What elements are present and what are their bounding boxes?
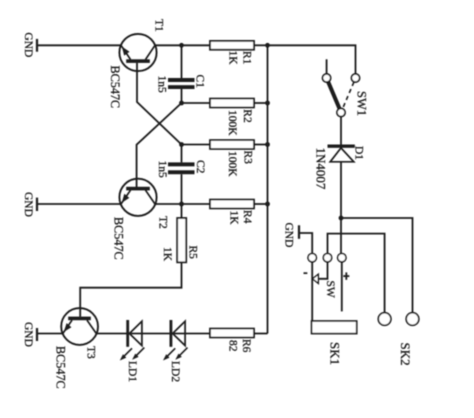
svg-text:T2: T2: [157, 216, 169, 229]
svg-text:SW: SW: [324, 281, 336, 298]
svg-text:1N4007: 1N4007: [314, 148, 329, 190]
svg-text:GND: GND: [22, 32, 34, 57]
svg-text:SK1: SK1: [328, 342, 343, 365]
svg-text:1n5: 1n5: [156, 161, 168, 179]
svg-text:SK2: SK2: [398, 343, 413, 366]
svg-text:R6: R6: [240, 339, 252, 353]
svg-text:R1: R1: [241, 51, 253, 65]
svg-text:82: 82: [227, 340, 239, 352]
svg-text:GND: GND: [22, 322, 34, 347]
svg-text:100K: 100K: [226, 151, 238, 177]
svg-text:T1: T1: [153, 19, 165, 32]
svg-text:LD1: LD1: [126, 361, 138, 382]
svg-text:1K: 1K: [228, 211, 240, 226]
svg-text:D1: D1: [353, 146, 365, 160]
svg-text:GND: GND: [22, 192, 34, 217]
svg-text:LD2: LD2: [169, 361, 181, 382]
svg-text:R2: R2: [241, 109, 253, 123]
svg-text:BC547C: BC547C: [54, 346, 68, 389]
svg-text:R5: R5: [186, 246, 198, 260]
svg-text:T3: T3: [84, 346, 96, 359]
svg-text:1K: 1K: [161, 247, 173, 262]
svg-text:GND: GND: [283, 223, 295, 248]
svg-text:C2: C2: [194, 160, 206, 174]
svg-text:BC547C: BC547C: [112, 217, 126, 260]
svg-text:BC547C: BC547C: [108, 66, 122, 109]
svg-text:C1: C1: [194, 75, 206, 89]
svg-text:R4: R4: [241, 210, 253, 224]
svg-text:R3: R3: [242, 151, 254, 165]
svg-text:100K: 100K: [226, 110, 238, 136]
svg-text:1n5: 1n5: [156, 76, 168, 94]
svg-text:SW1: SW1: [355, 91, 369, 116]
svg-text:1K: 1K: [227, 51, 239, 66]
